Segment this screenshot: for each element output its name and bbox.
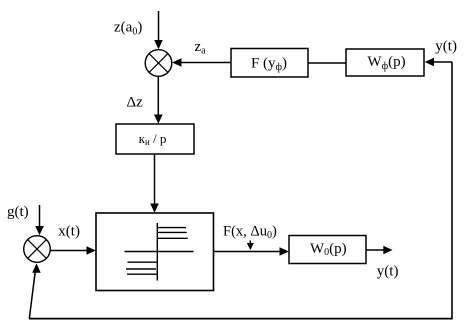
svg-text:ки / p: ки / p — [139, 131, 167, 147]
NL vertical axis — [156, 223, 158, 281]
wire: feedback slant into S2 — [29, 263, 40, 318]
NL horizontal axis — [125, 251, 194, 253]
wire: za from F block to S1 — [172, 58, 231, 67]
wire: z(a0) input vertical — [154, 11, 163, 49]
wire: delta-z from S1 to ki/p block — [154, 77, 163, 124]
svg-text:y(t): y(t) — [377, 264, 399, 280]
svg-text:g(t): g(t) — [7, 204, 29, 220]
svg-text:x(t): x(t) — [58, 224, 80, 240]
svg-text:y(t): y(t) — [435, 39, 457, 55]
svg-text:W0(p): W0(p) — [310, 241, 347, 258]
wire: right feedback vertical — [451, 62, 453, 318]
svg-text:z(a0): z(a0) — [114, 20, 142, 38]
svg-text:Δz: Δz — [127, 95, 144, 111]
block Wf(p) — [346, 49, 424, 76]
NL step lower 1 — [128, 261, 158, 263]
NL step upper 2 — [157, 231, 187, 233]
wire: W0 output y(t) — [366, 246, 393, 255]
wire: g(t) input arrow — [35, 205, 44, 235]
block ki/p — [116, 124, 194, 154]
NL step lower 3 — [127, 273, 157, 275]
NL step lower 2 — [126, 268, 156, 270]
block W0(p) — [289, 236, 366, 264]
NL step upper 1 — [157, 227, 186, 229]
wire: y(t) feedback into Wf block — [425, 58, 452, 67]
NL step upper 3 — [157, 237, 188, 239]
block nonlinearity F(x,du0) — [96, 213, 214, 291]
wire: nonlinearity to W0 block — [214, 247, 289, 256]
block F(yf) — [231, 49, 308, 78]
wire: ki/p to nonlinearity block — [150, 154, 159, 213]
summing junction S1 (top) — [145, 50, 172, 77]
wire: bottom feedback horizontal — [29, 318, 453, 320]
wire: F block to Wf block — [308, 62, 346, 64]
summing junction S2 (bottom) — [24, 236, 51, 263]
marker: small down arrow under F(x,du0) — [247, 241, 254, 251]
wire: x(t) from S2 to nonlinearity block — [51, 246, 96, 255]
svg-text:F (yф): F (yф) — [251, 56, 287, 74]
